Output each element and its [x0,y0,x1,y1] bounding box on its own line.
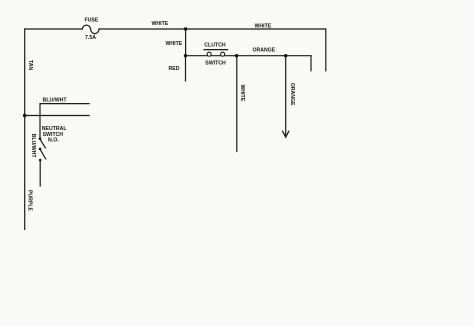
svg-text:FUSE: FUSE [85,18,99,24]
wire WHITE from top junction down to clutch-switch line [166,29,186,56]
svg-text:BLU/WHT: BLU/WHT [43,97,68,103]
svg-text:7.5A: 7.5A [85,35,96,41]
svg-text:SWITCH: SWITCH [205,60,226,66]
wire BLU/WHT from S terminal [30,97,89,158]
node junction tan / L-wire [23,114,27,118]
svg-text:WHITE: WHITE [239,84,245,101]
clutch switch S2 [204,43,228,67]
svg-text:RED: RED [169,66,180,72]
node junction orange drop [284,54,287,57]
svg-text:ORANGE: ORANGE [253,48,276,54]
svg-text:ORANGE: ORANGE [289,83,295,106]
wire top WHITE bus (fuse to relay 87 drop) [99,21,326,30]
node junction top white [184,27,187,30]
wire TAN left bus [25,29,34,116]
node junction white drop to bail switch [235,54,238,57]
wire PURPLE left bus [25,116,33,230]
fuse F1 7.5A [82,18,99,41]
wire RED from junction down to hour meter [169,56,186,81]
svg-text:BLU/WHT: BLU/WHT [30,134,36,159]
wire WHITE vertical to bail switch [237,56,245,152]
svg-text:TAN: TAN [27,60,33,71]
wire WHITE drop to relay 87 [325,29,327,71]
node junction clutch line left [184,54,187,57]
svg-text:CLUTCH: CLUTCH [204,43,226,49]
wire top WHITE bus (left of fuse) [25,28,83,30]
wire clutch switch line to ORANGE run into relay 85 [186,48,312,56]
svg-text:WHITE: WHITE [152,21,169,27]
neutral switch N.O. [39,126,68,186]
svg-text:N.O.: N.O. [48,138,59,144]
svg-text:WHITE: WHITE [255,24,272,30]
wire ORANGE stub into relay 85 [310,56,312,71]
svg-text:WHITE: WHITE [166,41,183,47]
wire ORANGE drop into module (arrow) [283,56,296,138]
svg-text:PURPLE: PURPLE [26,190,32,212]
wire L terminal to tan junction [25,115,89,117]
